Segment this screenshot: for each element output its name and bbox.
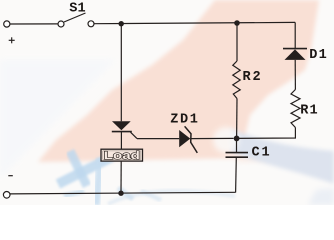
resistor R1 zigzag (291, 90, 300, 128)
load box inner line (103, 151, 141, 160)
wire top rail left (10, 23, 58, 25)
switch S1 throw circle (88, 21, 94, 27)
wire SCR to load box (120, 132, 122, 150)
svg-text:D1: D1 (309, 48, 328, 63)
SCR gate lead (131, 132, 138, 138)
zener ZD1 triangle (179, 130, 190, 147)
watermark stroke backslash (70, 151, 87, 186)
watermark vertical stroke (96, 158, 100, 205)
svg-text:S1: S1 (69, 2, 85, 17)
junction dot bottom (load branch) (118, 191, 123, 196)
watermark thin arc (108, 191, 235, 204)
switch S1 pole circle (58, 21, 64, 27)
wire R2 top (236, 23, 238, 61)
junction dot node B (R2 branch) (234, 20, 240, 26)
svg-text:ZD1: ZD1 (170, 113, 199, 128)
wire right edge down to D1 (294, 22, 296, 48)
load box (101, 149, 143, 161)
svg-text:C1: C1 (252, 146, 272, 161)
wire top rail right (94, 22, 295, 23)
junction dot node C (ZD1/R2/C1/R1) (234, 136, 240, 142)
terminal + (positive input) (4, 21, 10, 27)
svg-text:Load: Load (104, 150, 140, 162)
junction dot node A (SCR branch) (119, 21, 124, 26)
svg-text:R1: R1 (300, 104, 319, 119)
watermark small marks right (118, 188, 133, 199)
terminal - (negative input) (3, 192, 10, 199)
wire R1 bottom corner to node (237, 128, 296, 139)
wire gate to ZD1 (137, 138, 179, 140)
wire R2 bottom to node (236, 99, 238, 139)
wire SCR branch from top rail (120, 24, 122, 122)
watermark small stroke far right (141, 191, 161, 200)
wire C1 bottom down (235, 158, 238, 193)
wire load box to bottom rail (120, 161, 122, 193)
wire D1 to R1 (294, 60, 296, 90)
SCR thyristor triangle (112, 121, 131, 130)
plus sign (9, 37, 15, 43)
wire node to C1 (236, 138, 238, 152)
diode D1 triangle (285, 49, 306, 60)
watermark stroke slash (58, 157, 112, 184)
wire ZD1 to node (191, 137, 234, 139)
switch S1 blade (64, 13, 86, 22)
capacitor C1 bottom plate (226, 156, 249, 158)
blue swoosh bottom right (230, 129, 334, 184)
faint blue-white top-left corner (0, 60, 115, 178)
diode D1 cathode bar (283, 48, 307, 50)
SCR cathode bar (112, 131, 132, 133)
capacitor C1 top plate (226, 152, 249, 154)
bottom rail wire (10, 192, 236, 194)
pink diagonal ribbon (38, 0, 319, 162)
resistor R2 zigzag (233, 61, 240, 99)
pink fade right extension (238, 146, 272, 162)
zener ZD1 cathode bar with hooks (185, 126, 198, 153)
minus sign (8, 175, 13, 177)
watermark small marks low (64, 191, 84, 196)
svg-text:R2: R2 (243, 70, 263, 85)
